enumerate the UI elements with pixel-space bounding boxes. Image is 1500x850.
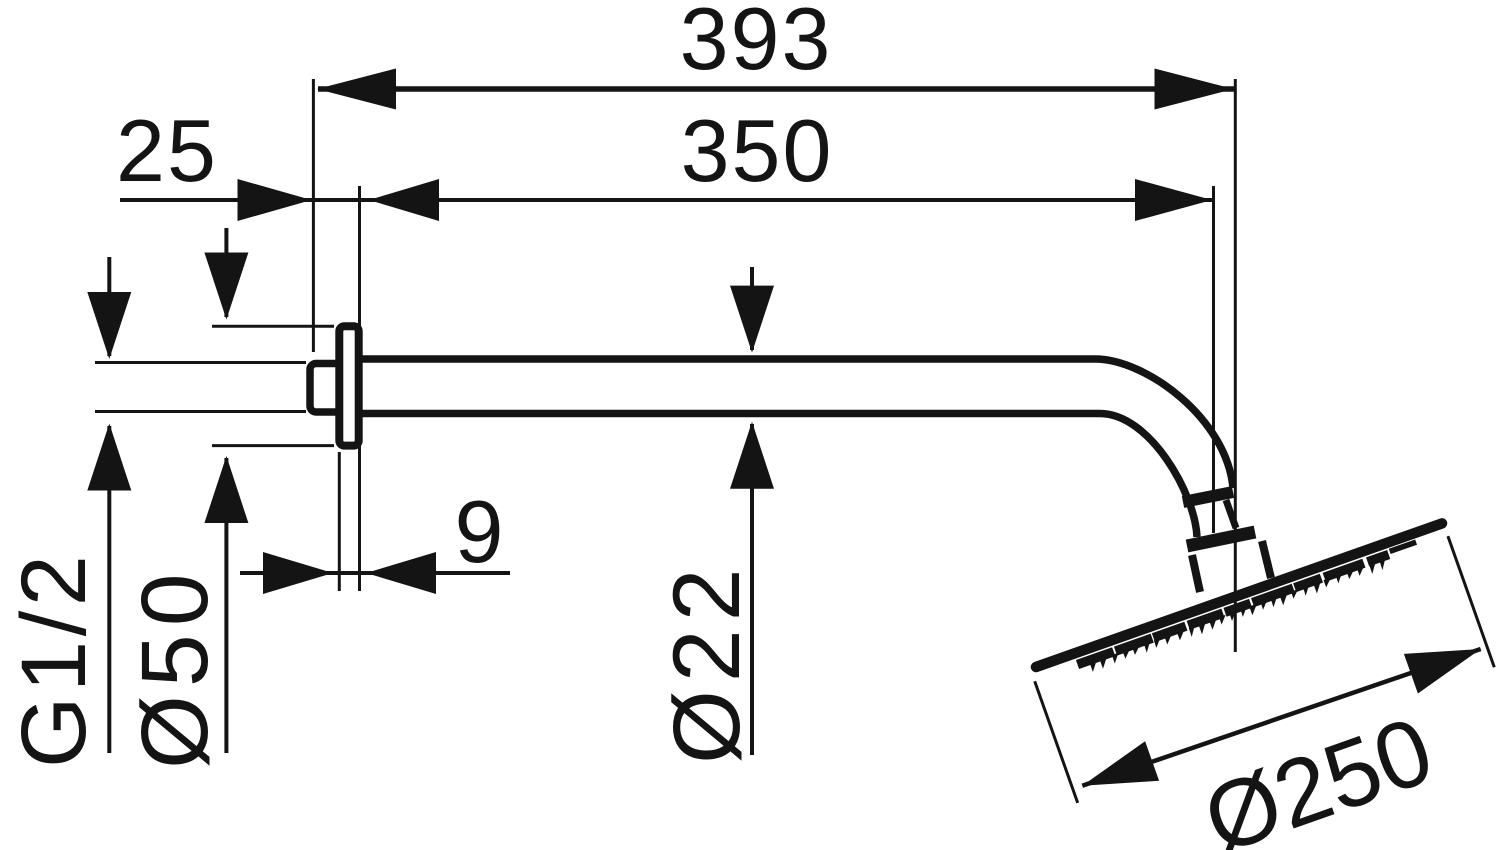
extension line: G1/2 top (stub top) [95,361,306,364]
dim line D50 lower [224,458,228,753]
arrowhead 350 right-pointing [1135,179,1212,221]
extension line: 350 left (flange right wall) [358,186,361,591]
arrowhead D22 up-pointing [730,422,774,489]
dim line D50 upper [224,228,228,317]
arrowhead D250 down-left-pointing [1082,741,1159,786]
dim line 393 [318,86,1234,92]
arrowhead 393 right [1155,69,1234,110]
swivel joint band 2 [1187,532,1255,546]
arrowhead 25 right-pointing [238,179,312,221]
dim line D22 lower [750,424,754,755]
extension line: D50 top (flange top) [212,325,334,328]
dim line G1/2 lower [107,426,111,753]
svg-text:393: 393 [680,0,833,88]
arrowhead D22 down-pointing [730,286,774,353]
ferrule left side [1192,555,1200,592]
shower head back line [1036,523,1442,667]
arrowhead 350 left-pointing [369,179,439,221]
swivel joint neck right side [1226,500,1236,528]
extension line: wall plane x=313 [312,79,315,352]
arrowhead G1/2 down-pointing [87,292,131,359]
shower head face band with nozzle teeth [1078,555,1389,673]
extension line: 9 left (flange left wall) [338,452,341,591]
ferrule right side [1262,541,1271,578]
dim line 9 [240,571,510,575]
arrowhead 9 right-pointing [263,552,333,594]
shower arm: pipe bottom edge with elbow inner curve [358,414,1197,538]
dim line D22 upper [750,267,754,350]
svg-text:9: 9 [455,482,504,581]
svg-text:25: 25 [116,101,218,200]
extension line: 393 right at head centre [1234,79,1237,652]
arrowhead 9 left-pointing [366,552,436,594]
extension line: 350 right (elbow) [1212,186,1215,533]
shower arm: pipe top edge with elbow outer curve [358,359,1233,488]
extension line: G1/2 bottom (stub bottom) [95,410,306,413]
shower arm: wall stub [310,364,342,413]
extension line: D50 bottom (flange bottom) [212,444,334,447]
arrowhead D50 up-pointing [204,456,248,523]
dim line 25/350 [120,198,1212,202]
swivel joint band 1 [1183,492,1233,502]
svg-text:Ø50: Ø50 [122,565,228,769]
svg-text:350: 350 [681,101,834,200]
shower arm: wall flange plate [339,326,358,445]
arrowhead D50 down-pointing [204,253,248,320]
svg-text:Ø22: Ø22 [654,560,760,764]
dim line D250 [1082,649,1480,786]
svg-text:G1/2: G1/2 [3,551,105,768]
dim line G1/2 upper [107,257,111,356]
arrowhead D250 up-right-pointing [1404,649,1481,694]
arrowhead G1/2 up-pointing [87,424,131,491]
extension line D250 upper-right [1448,536,1494,667]
extension line D250 lower-left [1035,681,1078,803]
arrowhead 393 left [317,69,396,110]
shower head face edge continuation [1390,542,1416,551]
